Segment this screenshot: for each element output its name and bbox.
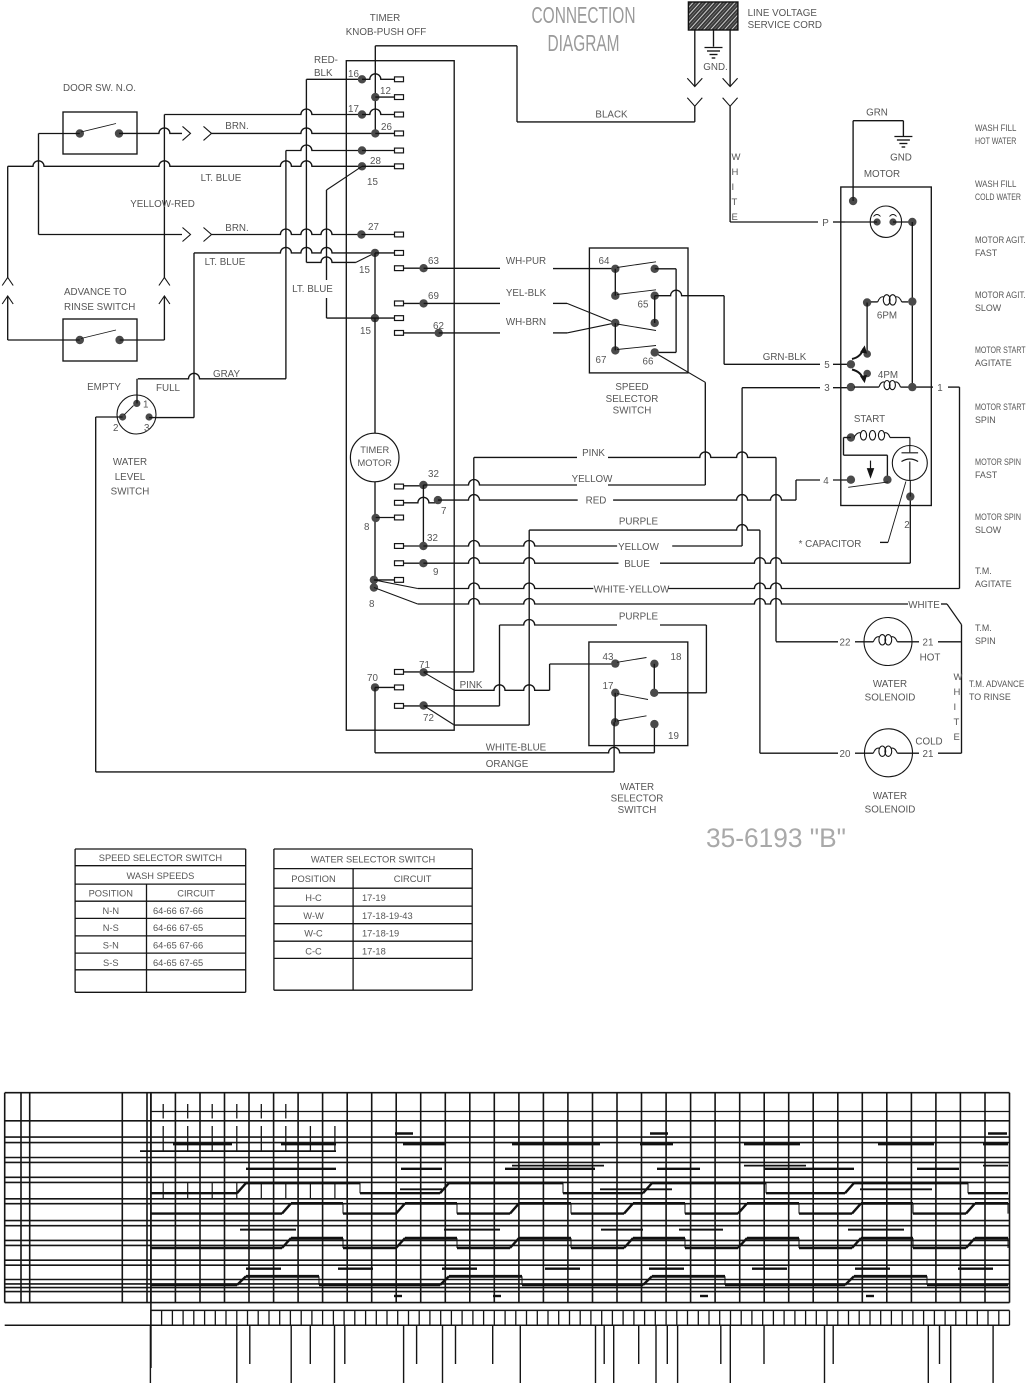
svg-text:S-S: S-S <box>103 958 119 968</box>
svg-text:LT. BLUE: LT. BLUE <box>292 284 333 295</box>
svg-text:4PM: 4PM <box>878 370 898 381</box>
svg-text:MOTOR START: MOTOR START <box>975 345 1026 355</box>
wire PURPLE lower 72 to water selector 17 <box>424 705 500 707</box>
svg-text:ORANGE: ORANGE <box>486 759 529 770</box>
svg-text:T: T <box>732 197 738 208</box>
svg-text:W: W <box>954 672 963 683</box>
speed selector blade 64 <box>617 262 656 268</box>
wire YELLOW 32 to speed selector 66 <box>423 480 577 485</box>
motor start relay contacts 4 <box>847 476 855 484</box>
wire 18 to mid contact <box>653 664 655 693</box>
svg-text:SPIN: SPIN <box>975 636 996 646</box>
svg-text:AGITATE: AGITATE <box>975 358 1012 368</box>
svg-text:28: 28 <box>370 156 381 167</box>
svg-text:1: 1 <box>937 383 942 394</box>
svg-text:SERVICE CORD: SERVICE CORD <box>748 20 822 31</box>
speed selector contact mid left upper <box>611 292 619 300</box>
timing chart bottom tick row <box>5 1324 1010 1326</box>
svg-text:17: 17 <box>603 681 614 692</box>
connector arrows left <box>687 78 702 86</box>
svg-text:16: 16 <box>348 69 359 80</box>
svg-text:GRN: GRN <box>866 108 888 119</box>
svg-text:YELLOW-RED: YELLOW-RED <box>130 199 195 210</box>
water selector switch table <box>274 848 472 850</box>
terminal 16 <box>358 75 366 83</box>
svg-text:WH-PUR: WH-PUR <box>506 256 546 267</box>
timing chart trace dashes top <box>395 1132 413 1134</box>
svg-text:15: 15 <box>359 265 370 276</box>
water selector contact bottom left <box>611 718 619 726</box>
svg-text:T.M. ADVANCE: T.M. ADVANCE <box>969 679 1024 689</box>
wire LT. BLUE third 15 to 15 riser <box>327 166 363 190</box>
svg-text:H: H <box>954 687 961 698</box>
svg-text:E: E <box>732 212 738 223</box>
svg-text:T: T <box>954 717 960 728</box>
motor protector contacts <box>874 218 881 225</box>
svg-text:SELECTOR: SELECTOR <box>611 794 664 805</box>
water selector terminal 18 <box>650 660 658 668</box>
svg-text:2: 2 <box>113 423 118 434</box>
svg-text:MOTOR: MOTOR <box>864 169 900 180</box>
motor protector circle <box>870 206 901 237</box>
terminal 62 <box>395 331 404 336</box>
svg-text:SWITCH: SWITCH <box>111 487 150 498</box>
svg-text:32: 32 <box>428 469 439 480</box>
speed selector terminal 67 <box>611 346 619 354</box>
terminal 32 lower <box>395 544 404 549</box>
advance switch blade <box>81 330 116 339</box>
svg-text:WATER SELECTOR SWITCH: WATER SELECTOR SWITCH <box>311 855 435 865</box>
svg-text:WASH FILL: WASH FILL <box>975 179 1016 189</box>
svg-text:64-65 67-66: 64-65 67-66 <box>153 941 203 951</box>
wire YELLOW-RED riser advance switch to timer 17 <box>164 109 362 115</box>
motor run capacitor circle <box>892 446 927 481</box>
svg-text:64-65 67-65: 64-65 67-65 <box>153 958 203 968</box>
svg-text:LINE VOLTAGE: LINE VOLTAGE <box>748 8 818 19</box>
svg-text:POSITION: POSITION <box>291 874 335 884</box>
svg-text:EMPTY: EMPTY <box>87 382 121 393</box>
cold solenoid coil <box>873 748 879 753</box>
svg-text:WATER: WATER <box>873 679 907 690</box>
svg-text:4: 4 <box>823 476 829 487</box>
svg-text:CONNECTION: CONNECTION <box>532 2 636 28</box>
svg-text:W-W: W-W <box>303 911 324 921</box>
hot solenoid coil <box>873 637 879 642</box>
plug wire left (black leg) <box>694 30 696 86</box>
timing chart band 4 tick marks <box>162 1182 164 1198</box>
speed selector switch box <box>589 248 688 373</box>
timing chart trace B2 stepped <box>151 1247 282 1249</box>
wire PINK 71 to hot solenoid 22 <box>474 456 577 458</box>
terminal 15 third <box>371 314 379 322</box>
svg-text:SWITCH: SWITCH <box>618 805 657 816</box>
wire GRN-BLK 65 to motor 5 <box>655 290 724 296</box>
water selector terminal 43 <box>611 659 619 667</box>
wire GRAY water level 1 to timer 28 <box>136 379 138 404</box>
svg-text:* CAPACITOR: * CAPACITOR <box>799 539 862 550</box>
svg-text:15: 15 <box>367 177 378 188</box>
advance switch wires <box>8 339 80 341</box>
svg-text:2: 2 <box>904 520 909 531</box>
terminal 15 second <box>371 249 379 257</box>
terminal 8 lower pair <box>370 576 378 584</box>
svg-text:17-19: 17-19 <box>362 893 386 903</box>
timing chart trace row 1 bars <box>173 1143 232 1145</box>
svg-text:9: 9 <box>433 567 438 578</box>
svg-text:MOTOR AGIT.: MOTOR AGIT. <box>975 290 1026 300</box>
svg-text:WATER: WATER <box>620 782 654 793</box>
timing chart trace D dashes <box>246 1267 281 1269</box>
riser protector to 6PM and 4PM <box>911 222 913 387</box>
svg-text:64-66 67-66: 64-66 67-66 <box>153 906 203 916</box>
svg-text:66: 66 <box>643 357 654 368</box>
speed selector switch table <box>75 848 246 850</box>
speed selector terminal 65 upper <box>651 292 659 300</box>
svg-text:19: 19 <box>668 731 679 742</box>
terminal 26 <box>371 129 379 137</box>
svg-text:PINK: PINK <box>582 448 605 459</box>
svg-text:67: 67 <box>596 355 607 366</box>
motor start switch blades <box>852 349 864 360</box>
svg-text:LT. BLUE: LT. BLUE <box>201 173 242 184</box>
svg-text:65: 65 <box>638 300 649 311</box>
svg-text:MOTOR SPIN: MOTOR SPIN <box>975 457 1021 467</box>
speed selector contact top right <box>651 265 659 273</box>
svg-text:8: 8 <box>369 599 375 610</box>
svg-text:DIAGRAM: DIAGRAM <box>548 30 620 56</box>
svg-text:26: 26 <box>381 122 392 133</box>
svg-text:43: 43 <box>603 652 614 663</box>
wire BRN upper door switch to timer 26 <box>119 128 182 133</box>
svg-text:21: 21 <box>923 638 934 649</box>
svg-text:N-S: N-S <box>103 923 119 933</box>
svg-text:H-C: H-C <box>305 893 322 903</box>
terminal 72 <box>395 704 404 709</box>
svg-text:GRAY: GRAY <box>213 369 241 380</box>
svg-text:S-N: S-N <box>103 941 119 951</box>
svg-text:P: P <box>822 218 829 229</box>
svg-text:W: W <box>732 152 741 163</box>
svg-text:MOTOR SPIN: MOTOR SPIN <box>975 512 1021 522</box>
door switch blade <box>81 124 116 133</box>
svg-text:BRN.: BRN. <box>225 223 248 234</box>
wire from door switch left to BRN lower <box>39 133 80 135</box>
svg-text:3: 3 <box>144 423 150 434</box>
svg-text:WASH SPEEDS: WASH SPEEDS <box>126 871 194 881</box>
speed selector contact mid left lower <box>611 319 619 327</box>
svg-text:KNOB-PUSH OFF: KNOB-PUSH OFF <box>346 27 427 38</box>
terminal 28 <box>358 146 366 154</box>
timing chart top tick marks <box>162 1104 164 1119</box>
wire black leg below connector <box>694 106 696 122</box>
wire LT. BLUE from advance switch left to timer 15 <box>7 166 9 277</box>
svg-text:YELLOW: YELLOW <box>572 474 614 485</box>
svg-text:71: 71 <box>419 660 430 671</box>
timing chart grid verticals <box>150 1093 152 1303</box>
svg-text:WASH FILL: WASH FILL <box>975 123 1016 133</box>
svg-text:64-66 67-65: 64-66 67-65 <box>153 923 203 933</box>
svg-text:SOLENOID: SOLENOID <box>865 693 916 704</box>
speed selector blade mid upper <box>617 290 656 295</box>
svg-text:CIRCUIT: CIRCUIT <box>177 889 215 899</box>
svg-text:GND: GND <box>890 153 912 164</box>
svg-text:FAST: FAST <box>975 248 998 258</box>
speed selector blade 67 <box>617 346 656 350</box>
svg-text:PURPLE: PURPLE <box>619 517 659 528</box>
ground symbol motor <box>894 136 912 138</box>
svg-text:LT. BLUE: LT. BLUE <box>205 257 246 268</box>
wire orange riser into water selector <box>613 722 615 772</box>
svg-text:WHITE-BLUE: WHITE-BLUE <box>486 743 547 754</box>
wire PINK lower 71 to water selector 43 <box>424 672 455 690</box>
motor box <box>841 187 932 506</box>
svg-text:WATER: WATER <box>113 457 147 468</box>
svg-text:MOTOR AGIT.: MOTOR AGIT. <box>975 235 1026 245</box>
motor terminal P right dot <box>908 218 916 226</box>
door switch box DOOR SW. N.O. <box>63 112 137 154</box>
svg-text:I: I <box>732 182 735 193</box>
svg-text:H: H <box>732 167 739 178</box>
terminal 15 first <box>358 162 366 170</box>
svg-text:PURPLE: PURPLE <box>619 612 659 623</box>
timing chart extra dashes row F <box>240 1229 296 1231</box>
svg-text:8: 8 <box>364 522 370 533</box>
wire YELLOW second 32 to motor 3 <box>423 541 617 547</box>
advance to rinse switch box <box>63 319 137 361</box>
svg-text:DOOR SW. N.O.: DOOR SW. N.O. <box>63 83 136 94</box>
ground wire from plug <box>713 30 715 47</box>
svg-text:WHITE-YELLOW: WHITE-YELLOW <box>594 585 670 596</box>
svg-text:20: 20 <box>840 749 851 760</box>
connector arrows right <box>723 78 738 86</box>
svg-text:N-N: N-N <box>103 906 120 916</box>
wire RED 7 to motor 4 <box>438 495 578 500</box>
wire from timer top to black wire <box>516 46 518 122</box>
svg-text:T.M.: T.M. <box>975 566 992 576</box>
svg-text:72: 72 <box>423 713 434 724</box>
4PM winding <box>879 382 884 387</box>
wire timer 12-26 riser <box>374 46 376 134</box>
svg-text:YEL-BLK: YEL-BLK <box>506 288 547 299</box>
svg-text:SLOW: SLOW <box>975 303 1002 313</box>
svg-text:6PM: 6PM <box>877 311 897 322</box>
motor terminal 2 dot <box>906 492 914 500</box>
start switch jog wire <box>844 437 851 439</box>
svg-text:WHITE: WHITE <box>908 600 940 611</box>
svg-text:RED: RED <box>586 496 607 507</box>
terminal 9 <box>395 561 404 566</box>
svg-text:17: 17 <box>348 104 359 115</box>
advance switch contacts <box>76 336 84 344</box>
cold water solenoid circle <box>865 729 913 777</box>
motor terminal 5 <box>847 360 855 368</box>
svg-text:63: 63 <box>428 256 439 267</box>
riser 15 third to timer motor <box>374 318 376 433</box>
wire YEL-BLK 69 to speed selector <box>424 302 500 304</box>
wire GRN motor to ground <box>849 197 857 205</box>
svg-text:32: 32 <box>427 533 438 544</box>
terminal 71 <box>395 670 404 675</box>
wire BLUE 9 to motor 2 <box>423 558 618 564</box>
timing chart trace A stepped <box>151 1192 237 1194</box>
wire WHITE from plug to motor terminal P <box>729 106 731 222</box>
svg-text:YELLOW: YELLOW <box>618 542 660 553</box>
start relay blade <box>848 482 888 487</box>
svg-text:SPEED SELECTOR SWITCH: SPEED SELECTOR SWITCH <box>99 853 222 863</box>
wire 22 into hot solenoid <box>776 641 838 643</box>
water selector terminal 19 <box>650 720 658 728</box>
wire PURPLE upper 72 to cold solenoid 20 <box>424 706 454 725</box>
svg-text:ADVANCE TO: ADVANCE TO <box>64 287 127 298</box>
terminal 8 mid <box>372 514 380 522</box>
svg-text:WATER: WATER <box>873 791 907 802</box>
plug wire right (white leg) <box>729 30 731 86</box>
wire WHITE-YELLOW 8 to motor 1 riser <box>374 580 418 589</box>
wire 6PM to start contact <box>866 303 868 355</box>
timing chart trace E small dashes <box>394 1295 402 1297</box>
svg-text:64: 64 <box>599 256 610 267</box>
svg-text:62: 62 <box>433 321 444 332</box>
svg-text:MOTOR START: MOTOR START <box>975 402 1026 412</box>
timing chart trace B stepped <box>151 1212 282 1214</box>
terminal 32 upper <box>395 484 404 489</box>
water selector terminal 17 <box>611 689 619 697</box>
hot water solenoid circle <box>864 618 912 666</box>
wire LT. BLUE water level 3 to timer 15 second <box>149 417 194 419</box>
svg-text:70: 70 <box>367 673 378 684</box>
terminal 69 <box>395 301 404 306</box>
water level switch contact 1 <box>133 400 140 407</box>
svg-text:3: 3 <box>824 383 830 394</box>
svg-text:21: 21 <box>923 749 934 760</box>
timing chart trace C stepped <box>151 1284 237 1286</box>
svg-text:TIMER: TIMER <box>370 13 400 24</box>
svg-text:17-18-19-43: 17-18-19-43 <box>362 911 413 921</box>
svg-text:POSITION: POSITION <box>89 889 133 899</box>
svg-text:22: 22 <box>840 638 851 649</box>
speed selector terminal 66 <box>651 348 659 356</box>
svg-text:15: 15 <box>360 326 371 337</box>
svg-text:CIRCUIT: CIRCUIT <box>394 874 432 884</box>
water selector switch box <box>589 642 688 746</box>
svg-text:69: 69 <box>428 291 439 302</box>
6PM winding <box>863 298 871 306</box>
svg-text:MOTOR: MOTOR <box>357 458 392 468</box>
riser 15 second to 15 third <box>374 253 376 318</box>
speed selector terminal 65 lower <box>651 319 659 327</box>
svg-text:FAST: FAST <box>975 470 998 480</box>
svg-text:RED-: RED- <box>314 55 338 66</box>
svg-text:SPIN: SPIN <box>975 415 996 425</box>
svg-text:BRN.: BRN. <box>225 121 248 132</box>
svg-text:HOT WATER: HOT WATER <box>975 136 1016 146</box>
svg-text:7: 7 <box>441 506 446 517</box>
wire PINK upper riser 71 <box>424 671 474 673</box>
svg-text:35-6193 "B": 35-6193 "B" <box>706 823 846 853</box>
svg-text:HOT: HOT <box>920 653 941 664</box>
timing chart trace row 2 bars <box>246 1168 336 1170</box>
wire P into protector <box>845 221 877 223</box>
svg-text:E: E <box>954 732 960 743</box>
terminal 63 <box>395 266 404 271</box>
terminal 12 <box>371 93 379 101</box>
svg-text:AGITATE: AGITATE <box>975 579 1012 589</box>
terminal 70 <box>371 683 379 691</box>
water level switch blade <box>124 406 134 416</box>
svg-text:TO RINSE: TO RINSE <box>969 692 1011 702</box>
svg-text:BLUE: BLUE <box>624 559 650 570</box>
timing chart extra bars band2 <box>140 1150 336 1152</box>
vertical 32 to 32 <box>422 485 424 546</box>
svg-text:RINSE SWITCH: RINSE SWITCH <box>64 302 135 313</box>
speed selector terminal 64 <box>611 265 619 273</box>
svg-text:T.M.: T.M. <box>975 623 992 633</box>
svg-text:SELECTOR: SELECTOR <box>606 394 659 405</box>
svg-text:SOLENOID: SOLENOID <box>865 805 916 816</box>
svg-text:1: 1 <box>143 400 148 411</box>
terminal 17 <box>358 110 366 118</box>
wire WH-PUR 63 to speed selector 64 <box>424 267 500 269</box>
wire BRN lower to timer 27 <box>39 234 183 236</box>
wire RED-BLK timer 16 to 15 <box>306 78 362 80</box>
svg-text:GRN-BLK: GRN-BLK <box>763 352 807 363</box>
svg-text:17-18: 17-18 <box>362 946 386 956</box>
svg-text:PINK: PINK <box>460 680 483 691</box>
water level switch contact 2 <box>119 413 126 420</box>
svg-text:C-C: C-C <box>305 946 322 956</box>
timer motor circle <box>350 433 399 482</box>
start relay actuating arrow <box>870 461 872 476</box>
water selector blade 43 <box>617 658 647 663</box>
svg-text:BLK: BLK <box>314 68 333 79</box>
svg-text:18: 18 <box>671 652 682 663</box>
timing chart trace row 1c bars <box>400 1188 442 1190</box>
svg-text:GND.: GND. <box>703 62 728 73</box>
svg-text:W-C: W-C <box>304 929 323 939</box>
svg-text:SPEED: SPEED <box>615 382 648 393</box>
wire 20 into cold solenoid <box>760 752 838 754</box>
water selector blade bottom <box>617 716 647 721</box>
svg-text:I: I <box>954 702 957 713</box>
svg-text:COLD WATER: COLD WATER <box>975 192 1021 202</box>
wire WH-BRN 62 to speed selector <box>439 332 500 334</box>
motor terminal 3 <box>847 383 855 391</box>
svg-text:27: 27 <box>368 222 379 233</box>
svg-text:BLACK: BLACK <box>595 110 628 121</box>
wire top right to 66 <box>655 268 676 270</box>
timing chart second band tick marks <box>162 1126 164 1151</box>
ground symbol GND. <box>705 47 723 49</box>
water level switch circle <box>117 395 156 434</box>
svg-text:LEVEL: LEVEL <box>115 472 146 483</box>
wire WHITE-BLUE 70 to water selector 19 <box>374 687 376 752</box>
riser timer motor to terminal 8 group <box>374 482 376 588</box>
svg-text:WH-BRN: WH-BRN <box>506 317 546 328</box>
svg-text:FULL: FULL <box>156 383 181 394</box>
speed selector blade mid lower <box>617 324 656 331</box>
svg-text:TIMER: TIMER <box>360 445 389 455</box>
timing chart trace row 1b bars <box>512 1165 604 1167</box>
svg-text:5: 5 <box>824 360 830 371</box>
terminal 7 <box>395 500 404 505</box>
svg-text:SWITCH: SWITCH <box>613 406 652 417</box>
timing chart dangling cam lines <box>149 1325 151 1383</box>
water selector blade 17 <box>617 694 648 700</box>
water selector contact right mid <box>650 689 658 697</box>
timing chart row lines <box>5 1092 1010 1094</box>
svg-text:COLD: COLD <box>915 737 942 748</box>
svg-text:START: START <box>854 414 885 425</box>
